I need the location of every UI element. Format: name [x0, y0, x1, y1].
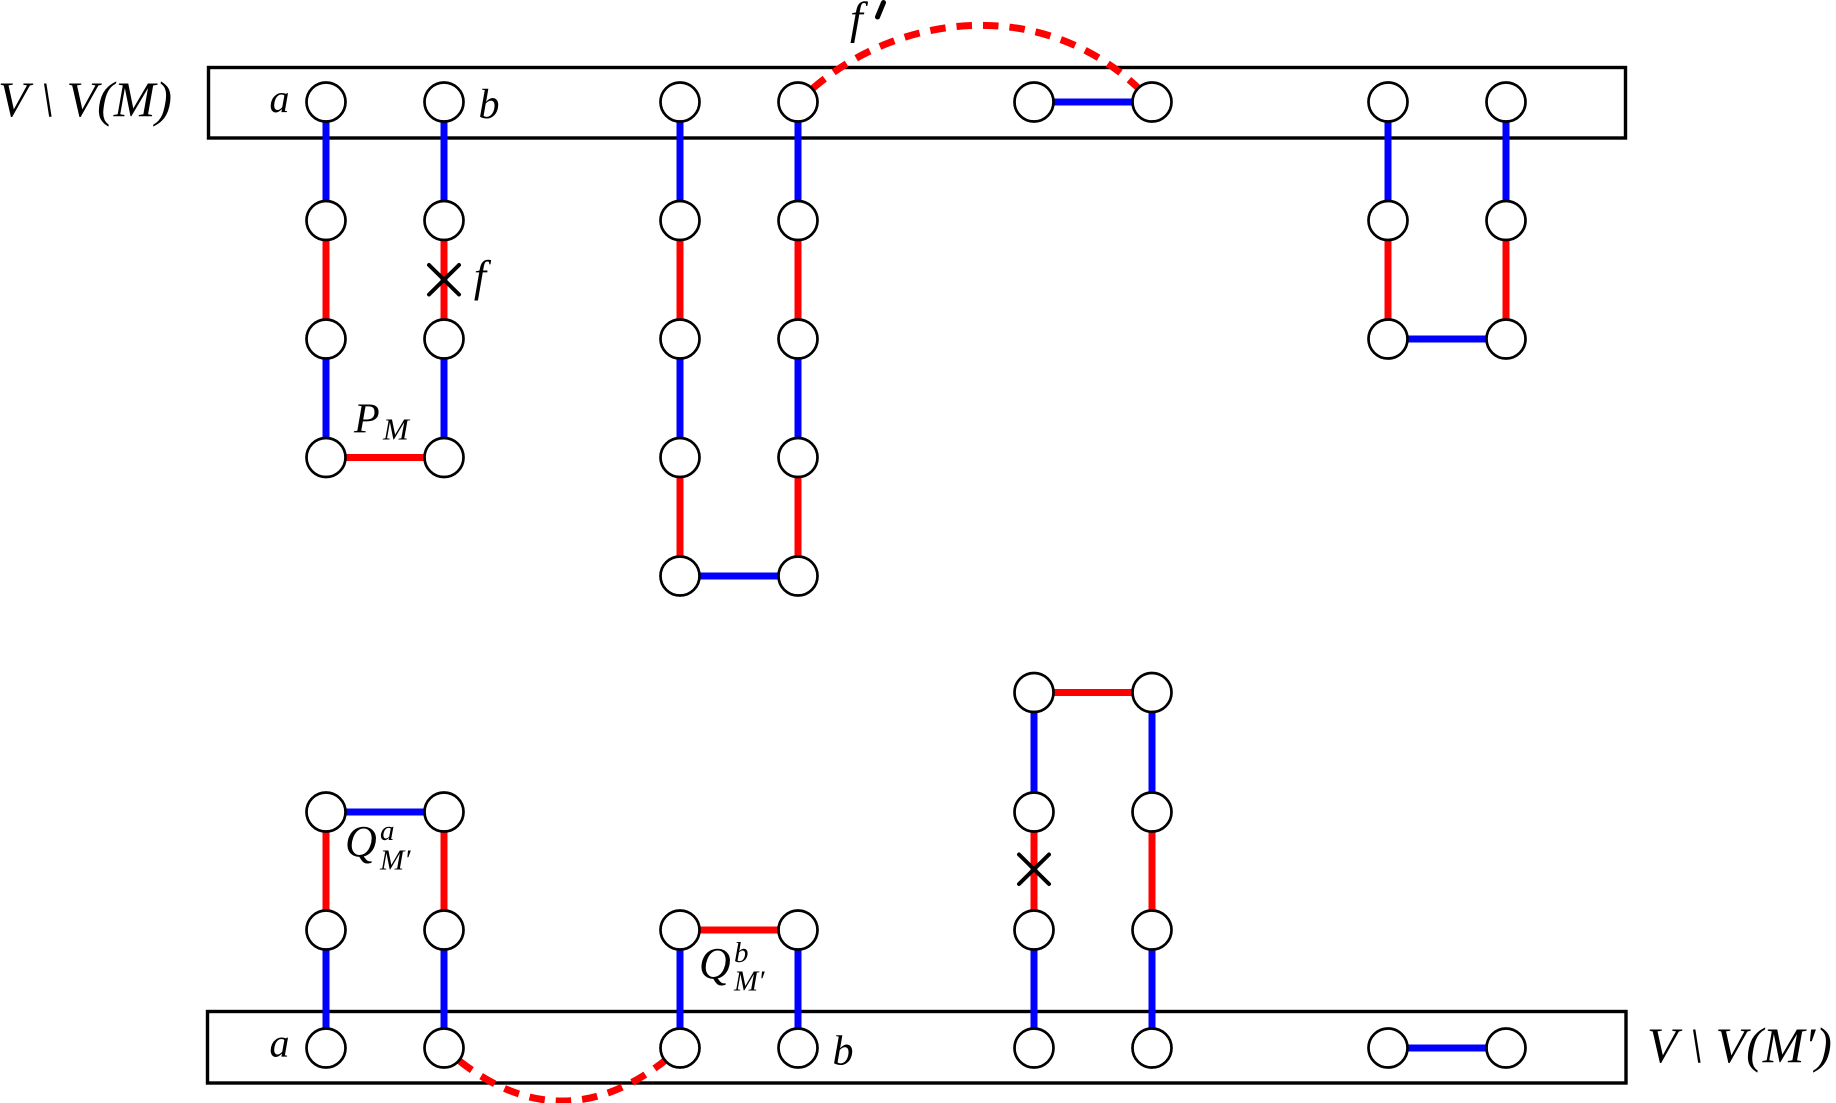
edge bottom pair blue	[1388, 1045, 1506, 1052]
node col1 row4	[307, 438, 346, 477]
edge chain6 blue 1	[1503, 102, 1510, 221]
edge a-chain red 2	[323, 221, 330, 340]
node col2 row4	[425, 438, 464, 477]
svg-text:Q: Q	[699, 939, 731, 988]
svg-text:V \ V(M′): V \ V(M′)	[1647, 1017, 1832, 1073]
edge chain5 blue 1	[1385, 102, 1392, 221]
edge chain4 blue 3	[795, 339, 802, 458]
node col7 row2	[1369, 201, 1408, 240]
node col7 bottom-box	[1369, 1029, 1408, 1068]
cross mark on chainK red edge	[1019, 855, 1049, 885]
node col3 row2	[661, 201, 700, 240]
node col7 row3	[1369, 320, 1408, 359]
edge chain4 red 2	[795, 221, 802, 340]
dashed red edge arc bottom	[444, 1048, 680, 1101]
node col2 brow3	[425, 793, 464, 832]
node col2 row3	[425, 320, 464, 359]
svg-text:M′: M′	[733, 966, 765, 998]
cross mark f on edge b-chain	[429, 265, 459, 295]
edge chainK blue 3	[1031, 693, 1038, 813]
edge Qb right blue	[795, 930, 802, 1048]
node c5 top-box	[1369, 83, 1408, 122]
node col3 row4	[661, 438, 700, 477]
edge chain5-6 bottom blue	[1388, 336, 1506, 343]
svg-text:f: f	[474, 252, 492, 301]
svg-text:P: P	[353, 397, 380, 443]
edge chainK blue 1	[1031, 930, 1038, 1048]
edge chain3 blue 3	[677, 339, 684, 458]
edge chain3 red 4	[677, 458, 684, 577]
edge chain3 red 2	[677, 221, 684, 340]
edge Qa left blue	[323, 930, 330, 1048]
node col1 bottom-box	[307, 1029, 346, 1068]
node col3 bottom-box	[661, 1029, 700, 1068]
edge b-chain red f	[441, 221, 448, 340]
edge Qa left red	[323, 812, 330, 930]
node col5 brow3	[1015, 793, 1054, 832]
node col8 row2	[1487, 201, 1526, 240]
svg-text:a: a	[270, 76, 290, 121]
node col8 bottom-box	[1487, 1029, 1526, 1068]
edge Qa right red	[441, 812, 448, 930]
node col1 brow2	[307, 911, 346, 950]
edge chain4 blue 1	[795, 102, 802, 221]
node col2 bottom-box	[425, 1029, 464, 1068]
node col1 row2	[307, 201, 346, 240]
edge top pair blue	[1034, 99, 1152, 106]
node col5 brow2	[1015, 911, 1054, 950]
box V minus V(M') bottom	[208, 1012, 1627, 1084]
node col1 brow3	[307, 793, 346, 832]
edge chain5 red 2	[1385, 221, 1392, 340]
node col4 row4	[779, 438, 818, 477]
node c4 top-box	[779, 83, 818, 122]
svg-text:M: M	[382, 412, 411, 447]
node c3 top-box	[661, 83, 700, 122]
node col4 brow2	[779, 911, 818, 950]
node col6 brow4	[1133, 673, 1172, 712]
edge Qb top red	[680, 927, 798, 934]
box V minus V(M) top	[209, 68, 1626, 139]
node col4 row2	[779, 201, 818, 240]
svg-text:b: b	[833, 1029, 854, 1075]
edge b-chain blue 1	[441, 102, 448, 221]
node c6 top-box	[1487, 83, 1526, 122]
svg-text:f: f	[850, 0, 869, 44]
edge chainL red 2	[1149, 812, 1156, 930]
edge Qa right blue	[441, 930, 448, 1048]
node col4 bottom-box	[779, 1029, 818, 1068]
svg-text:V \ V(M): V \ V(M)	[0, 71, 172, 127]
svg-text:M′: M′	[379, 845, 411, 877]
svg-text:b: b	[479, 82, 500, 128]
node col6 brow2	[1133, 911, 1172, 950]
dashed red edge f' arc top	[798, 25, 1152, 102]
edge Qb left blue	[677, 930, 684, 1048]
node col2 brow2	[425, 911, 464, 950]
edge chainK red 2	[1031, 812, 1038, 930]
edge chain6 red 2	[1503, 221, 1510, 340]
edge chain3-4 bottom blue	[680, 573, 798, 580]
edge a-chain blue 3	[323, 339, 330, 458]
node col4 row3	[779, 320, 818, 359]
node col3 brow2	[661, 911, 700, 950]
svg-text:b: b	[734, 937, 749, 969]
node p2 top-box	[1133, 83, 1172, 122]
edge chain3 blue 1	[677, 102, 684, 221]
node col1 row3	[307, 320, 346, 359]
node col8 row3	[1487, 320, 1526, 359]
node a top-box	[307, 83, 346, 122]
node col2 row2	[425, 201, 464, 240]
node col4 row5	[779, 557, 818, 596]
svg-text:a: a	[270, 1021, 290, 1066]
edge chainKL top red	[1034, 689, 1152, 696]
node col6 bottom-box	[1133, 1029, 1172, 1068]
edge b-chain blue 3	[441, 339, 448, 458]
node col3 row3	[661, 320, 700, 359]
node col3 row5	[661, 557, 700, 596]
node b top-box	[425, 83, 464, 122]
svg-text:Q: Q	[345, 817, 377, 866]
node col6 brow3	[1133, 793, 1172, 832]
edge a-chain blue 1	[323, 102, 330, 221]
node col5 bottom-box	[1015, 1029, 1054, 1068]
node col5 brow4	[1015, 673, 1054, 712]
edge Qa top blue	[326, 809, 444, 816]
edge P_M bottom red	[326, 454, 444, 461]
edge chain4 red 4	[795, 458, 802, 577]
edge chainL blue 3	[1149, 693, 1156, 813]
edge chainL blue 1	[1149, 930, 1156, 1048]
svg-text:a: a	[380, 815, 395, 847]
node p1 top-box	[1015, 83, 1054, 122]
